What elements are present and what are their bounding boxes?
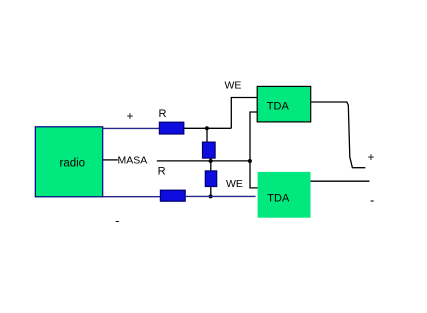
node junction dot B [209,159,213,163]
wire TDA2 output to speaker - [311,180,370,182]
svg-text:radio: radio [60,158,86,170]
svg-text:R: R [159,108,167,120]
wire R1 to vertical riser [184,127,232,129]
wire TDA1 pin2 to node C to TDA2 input [250,112,260,188]
wire radio to R2 (blue) [103,196,161,198]
wire node A down to RV1 [206,128,208,142]
svg-text:WE: WE [226,178,243,190]
wire RV2 to lower signal line [210,187,212,197]
svg-text:TDA: TDA [267,192,290,204]
radio source block "radio" [35,127,102,197]
svg-text:WE: WE [225,80,242,92]
amplifier TDA2 [258,172,311,218]
resistor R2 (lower horizontal) [160,190,185,201]
resistor RV2 (lower vertical) [205,171,216,187]
node junction dot C [248,159,252,163]
svg-text:+: + [127,111,134,123]
wire TDA1 output to speaker + [311,102,366,168]
wire radio to R1 (blue) [103,127,159,129]
resistor R1 (upper horizontal) [159,122,183,134]
svg-text:-: - [370,192,374,207]
wire RV1 to MASA line [210,158,212,161]
wire riser up to TDA1 input [231,98,257,129]
wire R2 to TDA2 (blue) [185,195,255,197]
svg-text:TDA: TDA [267,101,290,113]
svg-text:R: R [158,165,166,177]
resistor RV1 (upper vertical) [203,142,216,158]
wire radio to MASA label [103,159,118,161]
svg-text:+: + [368,152,375,164]
node junction dot A [205,126,209,130]
amplifier TDA1 [257,86,311,122]
node junction dot D [209,194,213,198]
wire MASA to RV2 [210,161,212,171]
wire MASA line to node C [157,160,250,162]
svg-text:MASA: MASA [118,155,148,167]
svg-text:-: - [115,213,119,228]
